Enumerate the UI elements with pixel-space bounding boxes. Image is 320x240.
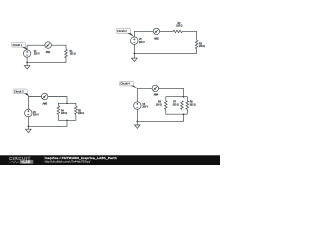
resistor R3 — [195, 40, 198, 49]
CircuitLab logo — [9, 156, 33, 164]
voltage source V2 — [131, 37, 139, 45]
svg-text:Circuit 2: Circuit 2 — [117, 30, 127, 33]
flag pointer wedge — [22, 47, 29, 50]
resistor R1 — [65, 49, 68, 58]
svg-text:Circuit 4: Circuit 4 — [120, 83, 130, 86]
ground — [26, 129, 32, 132]
svg-text:100 Ω: 100 Ω — [61, 113, 67, 115]
flag Circuit 2 — [116, 29, 130, 34]
label R6 100 Ohm — [156, 102, 162, 107]
svg-text:AM3: AM3 — [42, 102, 47, 105]
flag pointer wedge — [24, 93, 29, 96]
label V3 200 V — [33, 112, 39, 117]
ground — [135, 125, 141, 128]
resistor R6 — [165, 101, 168, 110]
wire AM1 to R1 top — [51, 45, 66, 49]
flag Circuit 1 — [12, 43, 26, 48]
ammeter AM1 — [45, 42, 52, 49]
ammeter AM3 — [42, 93, 48, 99]
resistor R7 — [181, 101, 184, 110]
node junction — [28, 125, 30, 127]
svg-text:Circuit 1: Circuit 1 — [13, 44, 23, 47]
wire top rail — [137, 88, 152, 102]
wire V3 bottom stem — [27, 116, 29, 129]
wire top rail — [28, 97, 41, 110]
footer black bar — [0, 155, 220, 165]
svg-text:LAB: LAB — [23, 160, 31, 164]
node bottom bus junction — [183, 113, 185, 115]
wire R2 to R3 top — [182, 31, 196, 40]
svg-text:200 V: 200 V — [34, 53, 40, 55]
wire AM2 to R2 — [160, 30, 174, 32]
svg-text:AM1: AM1 — [46, 51, 51, 54]
node top bus junction — [183, 96, 185, 98]
wire R3 bottom to V2 bottom — [134, 49, 196, 54]
label R1 100 Ohm — [70, 51, 76, 56]
svg-text:200 V: 200 V — [139, 42, 145, 44]
svg-text:http://circuitlab.com/c/7e44ab: http://circuitlab.com/c/7e44ab7f55qq/ — [45, 159, 91, 163]
node bottom bus junction — [66, 119, 68, 121]
svg-text:100 Ω: 100 Ω — [199, 46, 205, 48]
flag pointer wedge — [127, 33, 134, 37]
resistor R5 — [75, 106, 78, 115]
ground — [24, 66, 30, 69]
svg-text:330 Ω: 330 Ω — [190, 105, 196, 107]
node top bus junction — [66, 102, 68, 104]
bottom bus — [58, 115, 76, 121]
wire V4 bottom stem — [136, 109, 138, 125]
ammeter AM2 — [153, 28, 159, 34]
svg-text:200 V: 200 V — [142, 107, 148, 109]
wire AM3 to feed corner — [48, 97, 67, 104]
svg-text:Circuit 3: Circuit 3 — [14, 90, 24, 93]
label V1 200 V — [34, 51, 40, 56]
voltage source V3 — [25, 109, 33, 117]
resistor R4 — [57, 106, 60, 115]
svg-text:200 Ω: 200 Ω — [78, 113, 84, 115]
label R5 200 Ohm — [78, 110, 84, 115]
node junction — [136, 120, 138, 122]
label V4 200 V — [142, 104, 148, 109]
ammeter AM4 — [152, 85, 158, 91]
voltage source V1 — [23, 50, 30, 57]
node junction — [26, 62, 28, 64]
wire bus to bottom rail — [28, 120, 67, 126]
label R8 300 Ohm — [190, 102, 196, 107]
top bus — [58, 103, 76, 106]
label R3 100 Ohm — [199, 44, 205, 49]
wire V1 bottom stem — [26, 57, 28, 66]
wire AM4 to feed corner — [159, 88, 184, 96]
label R4 100 Ohm — [61, 110, 67, 115]
bottom bus — [166, 109, 188, 114]
wire V2 bottom stem — [133, 45, 135, 59]
wire bus to bottom rail — [137, 114, 183, 121]
svg-text:100 Ω: 100 Ω — [176, 26, 182, 28]
ground — [132, 58, 138, 61]
label R2 100 Ohm — [176, 23, 182, 28]
svg-text:AM2: AM2 — [154, 37, 159, 40]
resistor R8 — [186, 101, 189, 110]
svg-text:AM4: AM4 — [154, 94, 159, 97]
wire V1 top to corner — [27, 45, 45, 50]
svg-text:200 V: 200 V — [33, 114, 39, 116]
top bus — [166, 97, 188, 101]
flag pointer wedge — [130, 86, 137, 89]
label V2 200 V — [139, 39, 145, 44]
svg-text:100 Ω: 100 Ω — [70, 53, 76, 55]
flag Circuit 4 — [119, 81, 133, 86]
wire V2 top to AM2 — [134, 31, 153, 37]
resistor R2 (horizontal) — [173, 30, 182, 33]
voltage source V4 — [134, 102, 142, 110]
node junction — [134, 53, 136, 55]
svg-text:100 Ω: 100 Ω — [156, 105, 162, 107]
label R7 200 Ohm — [173, 102, 179, 107]
svg-text:200 Ω: 200 Ω — [173, 105, 179, 107]
wire R1 bottom to V1 bottom — [27, 58, 66, 63]
flag Circuit 3 — [13, 89, 27, 94]
